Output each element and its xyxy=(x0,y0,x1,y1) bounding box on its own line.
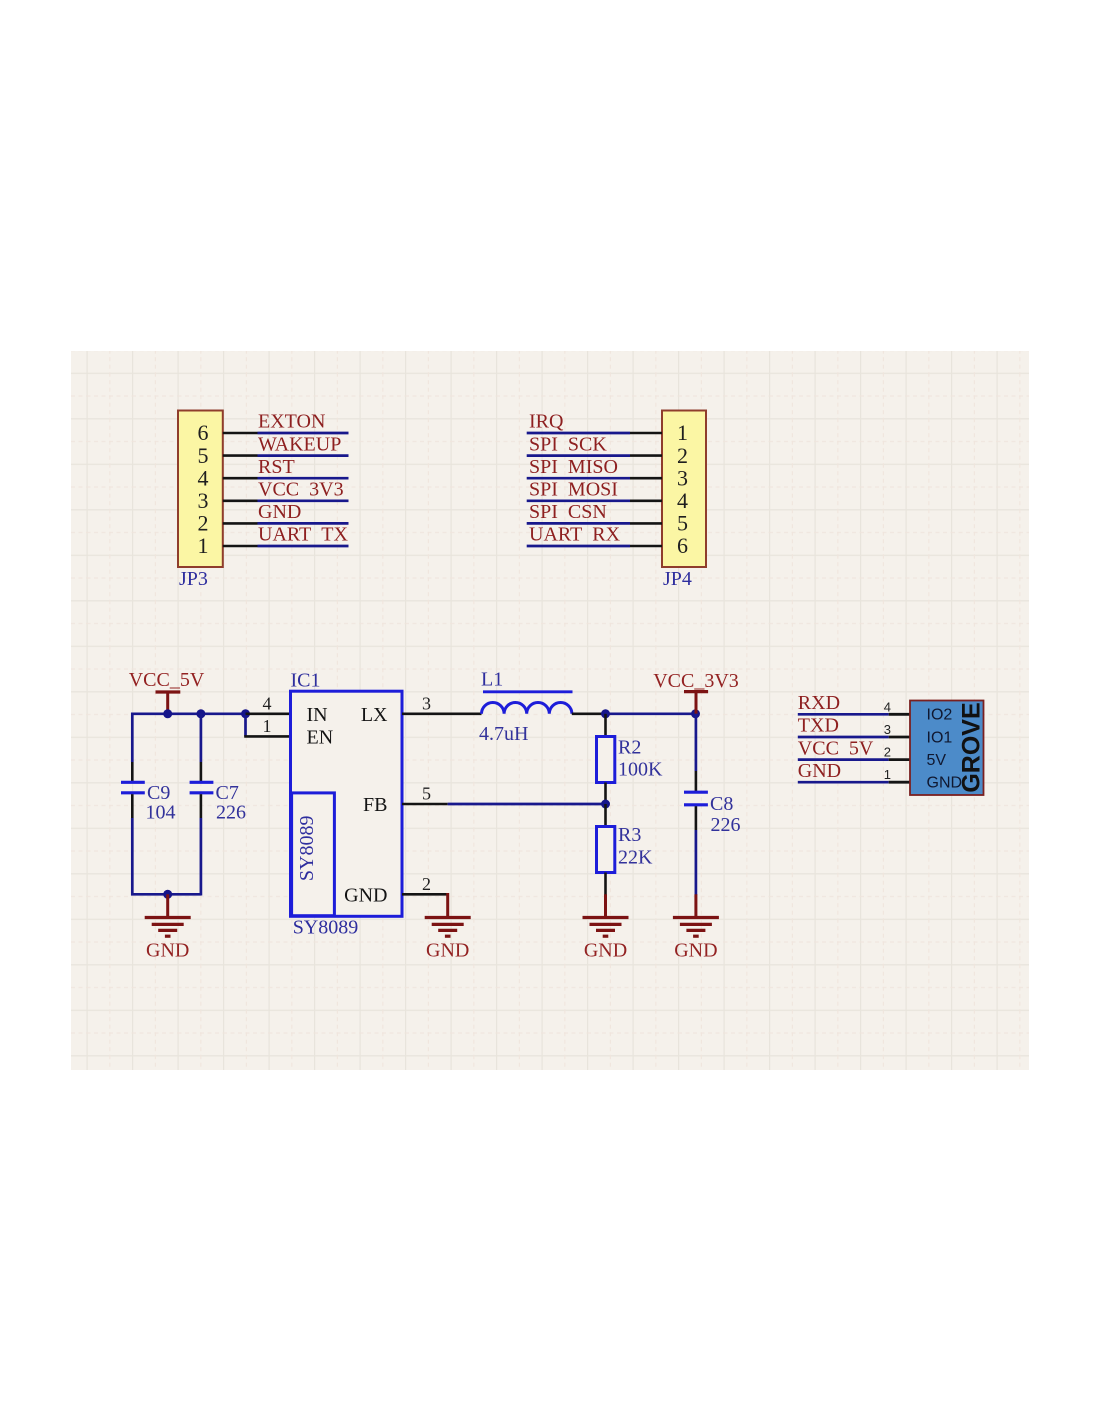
net label GND xyxy=(258,501,301,523)
svg-text:SPI CSN: SPI CSN xyxy=(529,501,607,523)
C7 value 226 xyxy=(216,802,246,824)
svg-text:GND: GND xyxy=(258,501,301,523)
svg-text:2: 2 xyxy=(677,443,688,468)
IC1 pin 1 EN stub xyxy=(244,735,290,738)
designator IC1 xyxy=(291,670,321,692)
L1 value 4.7uH xyxy=(479,723,528,745)
net label WAKEUP xyxy=(258,433,341,455)
wire FB net xyxy=(448,803,606,806)
op-amp U1 IC1 body xyxy=(291,691,403,916)
pin number 3 xyxy=(422,693,431,713)
R2 designator xyxy=(618,737,641,759)
ground stub below pin 2 xyxy=(446,893,449,917)
JP4 pin 2 xyxy=(677,443,688,468)
svg-text:5V: 5V xyxy=(927,752,947,769)
pin name EN xyxy=(307,726,334,748)
net UART_RX wire xyxy=(527,545,630,548)
net label TXD xyxy=(798,715,839,737)
svg-text:GND: GND xyxy=(344,884,387,906)
R2 value 100K xyxy=(618,759,663,781)
svg-text:IO1: IO1 xyxy=(927,729,953,746)
svg-text:104: 104 xyxy=(146,802,176,824)
power port VCC_3V3 label xyxy=(653,670,739,692)
svg-text:VCC 5V: VCC 5V xyxy=(798,737,874,759)
svg-text:1: 1 xyxy=(263,716,272,736)
grove pin number 1 xyxy=(884,767,891,782)
svg-text:L1: L1 xyxy=(481,669,503,691)
net label SPI MOSI xyxy=(529,479,618,501)
schematic sheet background xyxy=(71,351,1029,1070)
wire node to VCC_3V3 xyxy=(606,712,696,715)
pin number 5 xyxy=(422,784,431,804)
net label UART RX xyxy=(529,524,621,546)
JP3 pin 2 xyxy=(198,511,209,536)
net label SPI MISO xyxy=(529,456,618,478)
grove pin name 5V xyxy=(927,752,947,769)
ground label GND right xyxy=(674,940,717,962)
JP3 pin 2 stub wire xyxy=(223,522,258,525)
C8 bottom pin xyxy=(695,806,698,830)
C8 value 226 xyxy=(711,814,741,836)
ground symbol middle xyxy=(583,918,629,937)
wire C7 bottom vertical xyxy=(200,818,203,896)
designator JP4 xyxy=(663,568,692,590)
JP4 pin 6 stub wire xyxy=(630,545,662,548)
net SPI_SCK wire xyxy=(527,454,630,457)
svg-text:GROVE: GROVE xyxy=(958,702,986,792)
svg-text:IN: IN xyxy=(307,704,328,726)
ground label GND ic xyxy=(426,940,469,962)
L1 designator line xyxy=(483,690,573,693)
net label RST xyxy=(258,456,295,478)
svg-text:IO2: IO2 xyxy=(927,707,953,724)
C7 designator xyxy=(216,782,239,804)
junction dot at gnd rail xyxy=(163,890,172,899)
JP4 pin 2 stub wire xyxy=(630,454,662,457)
svg-text:JP3: JP3 xyxy=(179,568,208,590)
net SPI_MOSI wire xyxy=(527,499,630,502)
grove pin name IO1 xyxy=(927,729,953,746)
svg-text:4.7uH: 4.7uH xyxy=(479,723,528,745)
svg-text:226: 226 xyxy=(216,802,246,824)
wire C9 top vertical xyxy=(131,713,134,763)
JP3 pin 6 xyxy=(198,420,209,445)
svg-text:SPI MOSI: SPI MOSI xyxy=(529,479,618,501)
JP4 pin 6 xyxy=(677,533,688,558)
JP4 pin 3 stub wire xyxy=(630,477,662,480)
svg-text:SY8089: SY8089 xyxy=(296,816,318,882)
JP4 pin 4 xyxy=(677,488,688,513)
svg-text:RST: RST xyxy=(258,456,295,478)
net RST wire xyxy=(258,477,349,480)
svg-text:GND: GND xyxy=(146,940,189,962)
connector JP4 xyxy=(662,411,706,568)
power port VCC_5V bar symbol xyxy=(156,692,181,714)
net label SPI CSN xyxy=(529,501,607,523)
svg-text:2: 2 xyxy=(884,745,891,760)
svg-text:VCC_3V3: VCC_3V3 xyxy=(653,670,739,692)
pin number 1 xyxy=(263,716,272,736)
svg-text:GND: GND xyxy=(584,940,627,962)
net UART_TX wire xyxy=(258,545,349,548)
grove pin 1 stub xyxy=(889,781,910,784)
net EXTON wire xyxy=(258,432,349,435)
JP3 pin 1 stub wire xyxy=(223,545,258,548)
capacitor C9 xyxy=(121,782,145,793)
svg-text:4: 4 xyxy=(198,465,209,490)
R3 bottom pin wire xyxy=(604,873,607,896)
ground symbol right xyxy=(673,918,719,937)
svg-text:1: 1 xyxy=(198,533,209,558)
JP4 pin 3 xyxy=(677,465,688,490)
svg-text:GND: GND xyxy=(426,940,469,962)
grove pin name IO2 xyxy=(927,707,953,724)
svg-text:LX: LX xyxy=(361,704,388,726)
wire EN branch vertical xyxy=(244,714,247,737)
svg-text:100K: 100K xyxy=(618,759,663,781)
wire C8 bottom vertical xyxy=(695,830,698,895)
wire C7 top vertical xyxy=(200,713,203,763)
svg-text:IRQ: IRQ xyxy=(529,411,564,433)
svg-text:3: 3 xyxy=(677,465,688,490)
grove pin number 2 xyxy=(884,745,891,760)
inductor L1 coil xyxy=(482,703,572,714)
net SPI_MISO wire xyxy=(527,477,630,480)
junction dot at VCC_3V3 xyxy=(691,709,700,718)
JP4 pin 1 stub wire xyxy=(630,432,662,435)
designator L1 xyxy=(481,669,503,691)
grove pin number 4 xyxy=(884,699,891,714)
IC1 pin 2 GND stub xyxy=(402,893,448,896)
JP3 pin 1 xyxy=(198,533,209,558)
grove pin 4 stub xyxy=(889,713,910,716)
JP3 pin 4 xyxy=(198,465,209,490)
JP3 pin 5 stub wire xyxy=(223,454,258,457)
net label EXTON xyxy=(258,411,325,433)
net label VCC 3V3 xyxy=(258,479,344,501)
net TXD wire xyxy=(798,736,889,739)
net GND wire xyxy=(258,522,349,525)
svg-text:6: 6 xyxy=(677,533,688,558)
net label IRQ xyxy=(529,411,564,433)
part label SY8089 xyxy=(293,917,359,939)
R2 bottom pin wire xyxy=(604,783,607,805)
JP3 pin 3 xyxy=(198,488,209,513)
JP3 pin 4 stub wire xyxy=(223,477,258,480)
net IRQ wire xyxy=(527,432,630,435)
grove rotated label GROVE xyxy=(958,702,986,792)
JP4 pin 5 xyxy=(677,511,688,536)
capacitor C7 xyxy=(190,782,214,793)
junction dot at FB node xyxy=(601,800,610,809)
svg-text:EN: EN xyxy=(307,726,334,748)
ground label GND middle xyxy=(584,940,627,962)
IC1 pin 3 LX stub xyxy=(402,712,482,715)
svg-text:6: 6 xyxy=(198,420,209,445)
wire main input rail xyxy=(132,712,245,715)
grove pin name GND xyxy=(927,775,963,792)
IC1 inner part outline xyxy=(292,793,335,916)
JP4 pin 4 stub wire xyxy=(630,499,662,502)
net label RXD xyxy=(798,692,840,714)
C7 top pin xyxy=(200,762,203,781)
wire C8 top vertical xyxy=(695,714,698,771)
svg-text:R3: R3 xyxy=(618,824,641,846)
pin name GND xyxy=(344,884,387,906)
C9 value 104 xyxy=(146,802,176,824)
ground label GND left xyxy=(146,940,189,962)
JP3 pin 3 stub wire xyxy=(223,499,258,502)
pin number 2 xyxy=(422,874,431,894)
svg-text:UART RX: UART RX xyxy=(529,524,621,546)
net VCC_5V wire xyxy=(798,758,889,761)
svg-text:22K: 22K xyxy=(618,847,653,869)
svg-text:JP4: JP4 xyxy=(663,568,692,590)
svg-text:GND: GND xyxy=(674,940,717,962)
junction dot at EN branch xyxy=(241,709,250,718)
net label UART TX xyxy=(258,524,348,546)
svg-text:R2: R2 xyxy=(618,737,641,759)
junction dot at C7 top xyxy=(196,709,205,718)
net label SPI SCK xyxy=(529,433,607,455)
net VCC_3V3 wire xyxy=(258,499,349,502)
IC1 pin 4 IN stub xyxy=(246,712,291,715)
svg-text:SPI MISO: SPI MISO xyxy=(529,456,618,478)
svg-text:C8: C8 xyxy=(710,793,733,815)
C9 top pin xyxy=(131,762,134,781)
grove pin number 3 xyxy=(884,722,891,737)
svg-text:1: 1 xyxy=(677,420,688,445)
svg-text:VCC 3V3: VCC 3V3 xyxy=(258,479,344,501)
C8 top pin xyxy=(695,771,698,791)
net label GND grove xyxy=(798,760,841,782)
svg-text:4: 4 xyxy=(884,699,891,714)
ground stub below C8 xyxy=(694,894,697,917)
svg-text:EXTON: EXTON xyxy=(258,411,325,433)
svg-text:4: 4 xyxy=(677,488,688,513)
net SPI_CSN wire xyxy=(527,522,630,525)
pin name FB xyxy=(363,794,387,816)
svg-text:WAKEUP: WAKEUP xyxy=(258,433,341,455)
grove pin 3 stub xyxy=(889,736,910,739)
svg-text:UART TX: UART TX xyxy=(258,524,348,546)
JP4 pin 1 xyxy=(677,420,688,445)
ground symbol ic xyxy=(425,918,471,937)
svg-text:5: 5 xyxy=(198,443,209,468)
connector GROVE body xyxy=(910,701,984,796)
net label VCC 5V xyxy=(798,737,874,759)
svg-text:3: 3 xyxy=(884,722,891,737)
connector JP3 xyxy=(178,411,223,568)
svg-text:TXD: TXD xyxy=(798,715,839,737)
svg-text:3: 3 xyxy=(422,693,431,713)
R2 top pin wire xyxy=(604,714,607,737)
capacitor C8 xyxy=(684,792,708,805)
svg-text:FB: FB xyxy=(363,794,387,816)
resistor R2 xyxy=(597,737,615,783)
ground stub below gnd rail xyxy=(166,894,169,917)
svg-text:VCC_5V: VCC_5V xyxy=(129,669,205,691)
power port VCC_3V3 bar symbol xyxy=(684,692,708,714)
svg-text:RXD: RXD xyxy=(798,692,840,714)
power port VCC_5V label xyxy=(129,669,205,691)
designator JP3 xyxy=(179,568,208,590)
grove pin 2 stub xyxy=(889,758,910,761)
R3 designator xyxy=(618,824,641,846)
svg-text:2: 2 xyxy=(422,874,431,894)
svg-text:2: 2 xyxy=(198,511,209,536)
svg-text:SPI SCK: SPI SCK xyxy=(529,433,607,455)
IC1 rotated part name SY8089 xyxy=(296,816,318,882)
wire C9 bottom vertical xyxy=(131,818,134,896)
svg-text:5: 5 xyxy=(677,511,688,536)
svg-text:SY8089: SY8089 xyxy=(293,917,359,939)
svg-text:IC1: IC1 xyxy=(291,670,321,692)
JP3 pin 6 stub wire xyxy=(223,432,258,435)
junction dot at VCC_5V xyxy=(163,709,172,718)
resistor R3 xyxy=(597,827,615,873)
IC1 pin 5 FB stub xyxy=(402,803,448,806)
R3 top pin wire xyxy=(604,804,607,827)
svg-text:226: 226 xyxy=(711,814,741,836)
net RXD wire xyxy=(798,713,889,716)
svg-text:1: 1 xyxy=(884,767,891,782)
svg-text:3: 3 xyxy=(198,488,209,513)
ground symbol left xyxy=(145,918,191,937)
R3 value 22K xyxy=(618,847,653,869)
svg-text:5: 5 xyxy=(422,784,431,804)
JP4 pin 5 stub wire xyxy=(630,522,662,525)
wire bottom gnd rail xyxy=(131,893,201,896)
C9 bottom pin xyxy=(131,794,134,818)
wire LX to node xyxy=(572,712,606,715)
C7 bottom pin xyxy=(200,794,203,818)
net WAKEUP wire xyxy=(258,454,349,457)
C8 designator xyxy=(710,793,733,815)
svg-text:4: 4 xyxy=(263,693,272,713)
pin name LX xyxy=(361,704,388,726)
pin number 4 xyxy=(263,693,272,713)
pin name IN xyxy=(307,704,328,726)
net GND wire grove xyxy=(798,781,889,784)
JP3 pin 5 xyxy=(198,443,209,468)
C9 designator xyxy=(147,782,170,804)
ground stub below R3 xyxy=(604,894,607,917)
svg-text:GND: GND xyxy=(798,760,841,782)
junction dot at R2 top xyxy=(601,709,610,718)
